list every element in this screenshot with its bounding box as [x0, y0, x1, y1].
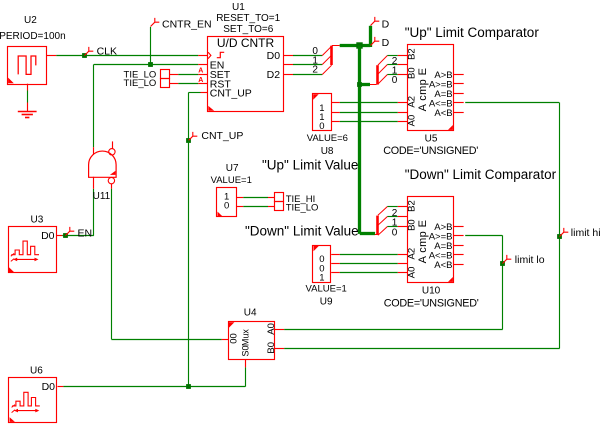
junction limit hi connector attach: [557, 234, 562, 239]
svg-text:Mux: Mux: [241, 329, 251, 347]
bus ripper link: [332, 45, 340, 47]
U5 output pin stub A=B: [454, 93, 464, 95]
svg-text:CNT_UP: CNT_UP: [201, 130, 243, 142]
bus horizontal top segment: [340, 44, 371, 47]
svg-text:S0: S0: [241, 345, 251, 356]
pulse source U2: [8, 47, 47, 85]
net connector D lower: [371, 37, 380, 46]
wire U10 A>=B to limit lo horizontal: [465, 235, 502, 237]
svg-text:U6: U6: [30, 366, 43, 377]
U11 bottom left pin stub: [93, 177, 95, 189]
bus ripper diagonal U5 bit 1: [378, 65, 388, 75]
svg-text:"Up" Limit Comparator: "Up" Limit Comparator: [405, 25, 540, 40]
U10 output pin stub A<B: [454, 264, 464, 266]
wire bus bit 0 to U10: [387, 226, 407, 228]
svg-text:U5: U5: [425, 134, 438, 145]
tie-low block 1: [161, 70, 170, 79]
wire CNT_UP horizontal: [189, 92, 201, 94]
svg-text:D: D: [382, 37, 390, 49]
svg-text:U11: U11: [93, 191, 111, 202]
U11 top stub: [112, 141, 114, 148]
svg-text:VALUE=1: VALUE=1: [211, 175, 252, 186]
tie-low block 2: [161, 79, 170, 88]
constant U9 body: [313, 246, 331, 283]
svg-text:TIE_LO: TIE_LO: [124, 78, 157, 89]
svg-text:U2: U2: [24, 15, 37, 26]
wire EN net to U1 EN pin: [151, 64, 199, 66]
wire CNTR_EN vertical to EN net: [150, 27, 152, 65]
svg-text:B0: B0: [407, 219, 418, 231]
constant U7 body: [217, 188, 237, 217]
bus ripper bar at U1 outputs: [330, 46, 333, 65]
svg-text:CODE='UNSIGNED': CODE='UNSIGNED': [383, 145, 478, 157]
svg-text:"Down" Limit Value: "Down" Limit Value: [245, 223, 359, 238]
svg-text:0: 0: [319, 121, 324, 132]
wire U9 to U10 A pin y254: [331, 254, 407, 256]
wire U11 output horizontal to U4: [111, 339, 221, 341]
wire bus bit 0 to U5: [387, 74, 407, 76]
bus ripper diagonal bit 2: [322, 65, 331, 74]
constant U8 body: [313, 94, 332, 131]
svg-text:0: 0: [392, 227, 398, 238]
net connector limit hi: [560, 228, 569, 237]
svg-text:A cmp E: A cmp E: [417, 220, 429, 264]
svg-text:limit lo: limit lo: [515, 254, 545, 266]
U5 output pin stub A<B: [454, 112, 464, 114]
counter U1 body: [208, 37, 284, 112]
wire U7 to TIE_LO: [236, 206, 275, 208]
svg-text:"Up" Limit Value: "Up" Limit Value: [262, 157, 358, 172]
U5 output pin stub A<=B: [454, 102, 464, 104]
svg-text:U7: U7: [226, 163, 239, 174]
wire D2 to bus ripper: [293, 74, 322, 76]
junction CNT_UP connector attach: [186, 138, 191, 143]
svg-text:00: 00: [229, 333, 240, 344]
wire bus bit 1 to U10: [387, 216, 407, 218]
junction limit lo connector attach: [500, 261, 505, 266]
wire U5 A<=B to limit hi horizontal: [465, 102, 559, 104]
U4 S0 pin stub: [245, 359, 247, 367]
source U3 body: [9, 227, 57, 273]
U1 D1 output pin stub: [283, 64, 293, 66]
wire EN net left segment: [94, 64, 151, 66]
bus riser to connector D: [369, 26, 372, 47]
svg-text:VALUE=6: VALUE=6: [307, 133, 348, 144]
U5 output pin stub A>=B: [454, 83, 464, 85]
svg-text:A0: A0: [407, 267, 418, 279]
wire EN net up to gate bottom: [93, 189, 95, 236]
svg-text:A<B: A<B: [434, 260, 452, 271]
svg-text:D0: D0: [42, 381, 56, 393]
U10 output pin stub A=B: [454, 245, 464, 247]
svg-text:CNTR_EN: CNTR_EN: [162, 18, 212, 30]
net connector EN: [66, 227, 75, 236]
svg-text:D0: D0: [267, 50, 281, 62]
U4 input pin stub: [222, 339, 229, 341]
wire EN net from U3: [62, 235, 94, 237]
wire CNT_UP vertical to bottom net: [188, 140, 190, 386]
wire CLK net U2 to U1 clock: [56, 55, 198, 57]
svg-text:A0: A0: [266, 323, 277, 335]
net connector CLK: [85, 47, 94, 56]
U1 D0 output pin stub: [283, 55, 293, 57]
nand gate U11 body: [89, 151, 117, 177]
bus junction tee: [356, 42, 362, 48]
bus ripper diagonal U5 bit 0: [378, 75, 388, 85]
U2 output pin stub: [46, 55, 56, 57]
U11 top pin stub: [93, 147, 95, 155]
bus ripper diagonal bit 0: [322, 46, 331, 55]
svg-text:SET_TO=6: SET_TO=6: [223, 24, 274, 35]
svg-text:B2: B2: [407, 200, 418, 212]
svg-text:A<B: A<B: [434, 108, 452, 119]
svg-text:PERIOD=100n: PERIOD=100n: [0, 31, 66, 42]
svg-text:"Down" Limit Comparator: "Down" Limit Comparator: [405, 167, 557, 182]
junction CNTR_EN on EN wire: [148, 62, 153, 67]
wire bus bit 2 to U5: [387, 55, 407, 57]
svg-text:A cmp E: A cmp E: [417, 68, 429, 112]
bus ripper diagonal U10 bit 0: [378, 227, 388, 236]
U1 CNT_UP pin stub: [201, 92, 208, 94]
svg-text:A0: A0: [407, 115, 418, 127]
wire U9 to U10 A pin y263: [331, 263, 407, 265]
wire U8 to U5 A pin y103: [331, 102, 407, 104]
U3 output pin stub: [56, 235, 62, 237]
wire TIE_LO to U1 RST: [170, 83, 208, 85]
net connector limit lo: [503, 255, 512, 264]
wire bus bit 2 to U10: [387, 206, 407, 208]
wire CNT_UP vertical: [188, 93, 190, 141]
svg-text:CODE='UNSIGNED': CODE='UNSIGNED': [384, 297, 479, 309]
svg-text:1: 1: [319, 272, 324, 283]
U6 output pin stub: [58, 386, 64, 388]
U11 inverted pin bubble top: [109, 149, 115, 155]
wire EN net down to gate U11: [93, 64, 95, 147]
svg-text:U/D CNTR: U/D CNTR: [217, 36, 275, 50]
svg-text:CNT_UP: CNT_UP: [210, 88, 252, 100]
svg-text:B0: B0: [266, 342, 277, 354]
svg-text:A2: A2: [407, 248, 418, 260]
net connector D upper: [371, 17, 380, 26]
bus junction at branch: [357, 82, 362, 87]
U1 D2 output pin stub: [283, 74, 293, 76]
ground: [18, 103, 37, 118]
svg-text:D2: D2: [267, 69, 281, 81]
U1 clock pin stub: [198, 55, 207, 57]
U4 B0 output pin stub: [274, 348, 284, 350]
svg-text:U1: U1: [232, 2, 245, 13]
source U6 body: [9, 378, 57, 423]
svg-text:B2: B2: [407, 48, 418, 60]
bus bottom segment: [360, 232, 375, 235]
wire D0 to bus ripper: [293, 55, 322, 57]
wire limit lo to U4 A0: [284, 329, 503, 331]
wire limit hi vertical: [559, 103, 561, 349]
U2 ground pin stub: [27, 84, 29, 91]
wire U8 to U5 A pin y112: [331, 112, 407, 114]
junction CLK connector attach: [82, 53, 87, 58]
wire U8 to U5 A pin y121: [331, 121, 407, 123]
U5 output pin stub A>B: [454, 74, 464, 76]
mux U4 body: [229, 322, 275, 360]
svg-text:A: A: [198, 68, 203, 75]
U4 A0 output pin stub: [274, 329, 284, 331]
wire limit lo vertical: [502, 235, 504, 329]
svg-text:VALUE=1: VALUE=1: [306, 284, 347, 295]
bus ripper diagonal U5 bit 2: [378, 56, 388, 66]
bus vertical main segment: [358, 46, 361, 234]
svg-text:D0: D0: [41, 230, 55, 242]
bus ripper bar at up comparator: [376, 65, 379, 84]
svg-text:limit hi: limit hi: [571, 227, 600, 239]
comparator U5 body: [408, 45, 454, 131]
svg-text:U9: U9: [320, 297, 333, 308]
wire U11 output vertical to U4 row: [111, 189, 113, 339]
U11 inverted pin bubble bottom: [108, 177, 114, 183]
wire U6 to U4 S0 horizontal: [63, 386, 245, 388]
wire U9 to U10 A pin y272: [331, 272, 407, 274]
bus ripper bar at down comparator: [376, 216, 379, 235]
svg-text:2: 2: [312, 65, 318, 76]
svg-text:CLK: CLK: [97, 46, 117, 58]
net connector CNT_UP: [189, 132, 198, 141]
wire limit hi to U4 B0: [284, 348, 560, 350]
svg-text:U10: U10: [422, 286, 441, 297]
U11 output pin stub: [111, 184, 113, 189]
wire TIE_LO to U1 SET: [170, 74, 208, 76]
bus ripper diagonal U10 bit 2: [378, 207, 388, 216]
U1 EN pin stub: [198, 64, 207, 66]
svg-text:U3: U3: [31, 214, 44, 225]
svg-text:A: A: [198, 77, 203, 84]
U10 output pin stub A<=B: [454, 254, 464, 256]
U10 output pin stub A>=B: [454, 235, 464, 237]
junction EN connector attach: [63, 233, 68, 238]
bus branch to up comparator: [360, 83, 370, 86]
svg-text:TIE_LO: TIE_LO: [286, 203, 319, 214]
svg-text:0: 0: [224, 201, 229, 212]
bus ripper link down comparator: [375, 234, 378, 236]
wire bus bit 1 to U5: [387, 64, 407, 66]
bus ripper diagonal U10 bit 1: [378, 217, 388, 226]
comparator U10 body: [408, 197, 454, 283]
junction CNT_UP meets U6 wire: [186, 384, 191, 389]
U10 output pin stub A>B: [454, 226, 464, 228]
wire D1 to bus ripper: [293, 64, 322, 66]
svg-text:U4: U4: [244, 308, 257, 319]
wire U7 to TIE_HI: [236, 197, 275, 199]
svg-text:U8: U8: [321, 146, 334, 157]
net connector CNTR_EN: [151, 18, 160, 27]
svg-text:RESET_TO=1: RESET_TO=1: [216, 13, 280, 24]
wire U2 to ground: [27, 91, 29, 103]
tie-high block: [275, 193, 284, 202]
tie-low block U7: [275, 202, 284, 211]
svg-text:B0: B0: [407, 67, 418, 79]
bus ripper diagonal bit 1: [322, 55, 331, 64]
svg-text:EN: EN: [78, 228, 93, 240]
wire U6 to U4 S0 vertical: [245, 367, 247, 386]
svg-text:D: D: [382, 18, 390, 30]
svg-text:A2: A2: [407, 96, 418, 108]
bus ripper link up comparator: [370, 84, 377, 86]
svg-text:0: 0: [392, 75, 398, 86]
